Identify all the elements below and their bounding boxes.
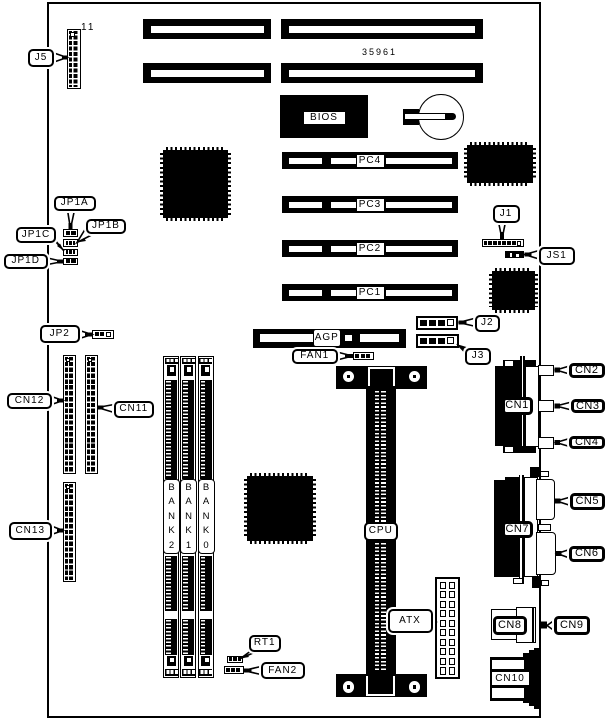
pointer ATX: [432, 616, 437, 628]
CN7 body: [494, 480, 522, 577]
pointer CN3: [556, 402, 572, 410]
connector J5: [67, 29, 81, 89]
DIMM socket BANK1: [180, 356, 196, 678]
CN1 housing: [525, 366, 539, 447]
chip D (center QFP): [247, 476, 313, 541]
callout JP1A: [54, 196, 97, 211]
pointer JP1D: [48, 258, 64, 265]
callout J5: [28, 49, 54, 67]
PCI slot PC4: [282, 152, 458, 169]
CN1 label: [502, 397, 533, 415]
chip A (left QFP): [163, 150, 228, 218]
pointer J3: [459, 346, 471, 354]
callout JP1B: [86, 219, 126, 235]
callout CN4: [569, 436, 605, 450]
BIOS chip: [280, 95, 368, 138]
label 11: [81, 22, 95, 33]
pointer JP1B: [77, 227, 93, 243]
connector J2: [416, 316, 458, 330]
connector CN13: [63, 482, 76, 582]
CN10 body: [490, 657, 532, 701]
chip B (right QFP): [467, 145, 533, 183]
pointer J1: [499, 222, 506, 239]
pointer CN2: [556, 366, 570, 374]
callout CN5: [570, 493, 605, 510]
PC1 label: [356, 286, 385, 300]
CPU label: [364, 522, 399, 541]
CN12 pin 1: [66, 358, 71, 363]
PC2 label: [356, 242, 385, 256]
CPU slot bottom bracket: [336, 674, 427, 698]
CN10 white bar bottom: [492, 688, 524, 699]
callout JS1: [539, 247, 576, 265]
CPU slot top bracket: [336, 366, 427, 389]
pointer FAN1: [337, 352, 353, 360]
callout CN2: [569, 363, 605, 378]
pointer CN6: [557, 550, 570, 559]
CN11 pin 1: [88, 358, 93, 363]
callout J1: [493, 205, 520, 223]
PCI slot PC2: [282, 240, 458, 257]
callout CN13: [9, 522, 53, 540]
connector CN12: [63, 355, 76, 474]
CN7 housing: [524, 477, 538, 577]
RT1 part: [227, 656, 243, 664]
PC3 label: [356, 198, 385, 212]
callout CN3: [571, 399, 605, 413]
battery: [418, 94, 464, 140]
connector JS1: [505, 251, 524, 258]
callout J3: [465, 348, 491, 365]
callout FAN1: [292, 349, 338, 365]
CN8 label: [493, 616, 527, 635]
callout ATX: [388, 609, 433, 633]
jumper block JP1C: [63, 249, 78, 257]
callout JP2: [40, 325, 81, 343]
battery clip block: [403, 109, 419, 125]
CN1 bracket line: [520, 356, 525, 453]
battery clip slot: [404, 113, 446, 120]
CN1 bottom tab: [503, 446, 536, 453]
ISA slot row1 left: [143, 19, 272, 39]
bottom bracket right hole: [409, 681, 421, 693]
jumper block JP1A: [63, 229, 78, 237]
CN8 right housing: [516, 607, 533, 643]
PC4 label: [356, 154, 385, 168]
CN1 body: [495, 366, 522, 446]
ATX power connector: [435, 577, 460, 679]
CN5 D-sub: [536, 479, 556, 521]
CN10 white bar top: [492, 660, 524, 670]
pointer RT1: [241, 652, 257, 659]
pointer FAN2: [244, 667, 262, 675]
pointer JP2: [80, 331, 93, 339]
pointer JP1C: [51, 235, 65, 252]
pointer JP1A: [68, 210, 75, 229]
CN7 block: top tabs: [530, 467, 540, 477]
callout JP1D: [4, 254, 48, 269]
text 35961: [362, 47, 397, 57]
FAN1 connector: [353, 352, 374, 361]
CN10 steps: [523, 653, 534, 703]
CN7 middle tab: [538, 524, 552, 531]
ISA slot row2 left: [143, 63, 272, 83]
jumper block JP1D: [63, 258, 78, 266]
pointer CN4: [556, 439, 570, 447]
callout CN11: [114, 401, 155, 418]
top bracket left hole: [343, 371, 355, 383]
top bracket notch: [368, 367, 395, 386]
jumper JP2: [92, 330, 114, 339]
bottom bracket notch: [366, 676, 395, 696]
callout J2: [475, 315, 500, 332]
CN4 port: [538, 437, 555, 449]
pointer CN11: [98, 405, 115, 413]
CN10 label: [490, 670, 531, 687]
bottom bracket left hole: [343, 681, 355, 693]
callout JP1C: [16, 227, 56, 243]
CN2 port: [538, 365, 555, 376]
CPU slot body: [366, 389, 397, 674]
DIMM socket BANK2: [163, 356, 179, 678]
FAN2 connector: [224, 666, 244, 674]
pointer CN5: [557, 497, 571, 506]
body contact dashes: [375, 391, 379, 671]
top bracket right hole: [409, 371, 421, 383]
callout FAN2: [261, 662, 306, 679]
DIMM socket BANK0: [198, 356, 214, 678]
pointer CN12: [52, 397, 64, 405]
callout CN6: [569, 546, 605, 563]
CN7 bracket line: [519, 475, 525, 584]
connector J1: [482, 239, 524, 247]
CN3 port: [538, 400, 555, 412]
pointer JS1: [525, 251, 540, 260]
CN7 label: [502, 521, 534, 538]
pointer CN13: [52, 526, 64, 535]
connector J3: [416, 334, 459, 349]
PCI slot PC3: [282, 196, 458, 213]
jumper block JP1B: [63, 239, 78, 247]
connector CN11: [85, 355, 98, 474]
callout RT1: [249, 635, 282, 652]
PCI slot PC1: [282, 284, 458, 301]
pointer J2: [459, 318, 477, 327]
pointer J5: [54, 53, 67, 62]
chip C (right small QFP): [492, 271, 535, 310]
pointer CN9: [547, 621, 554, 631]
BIOS label: [303, 111, 346, 125]
J5 pin 1: [70, 32, 75, 37]
CN7 bottom tabs: [532, 576, 541, 589]
CN13 pin 1: [66, 485, 71, 490]
CN1 block: top tab: [503, 360, 536, 367]
CN8 left housing: [491, 609, 519, 640]
ISA slot row1 right: [281, 19, 484, 39]
AGP label: [313, 329, 342, 347]
ISA slot row2 right: [281, 63, 484, 83]
AGP slot: [253, 329, 406, 348]
CN8 flange line: [533, 607, 536, 643]
battery clip tip: [446, 113, 456, 120]
callout CN9: [554, 616, 591, 636]
CN6 D-sub: [536, 532, 557, 575]
callout CN12: [7, 393, 52, 410]
